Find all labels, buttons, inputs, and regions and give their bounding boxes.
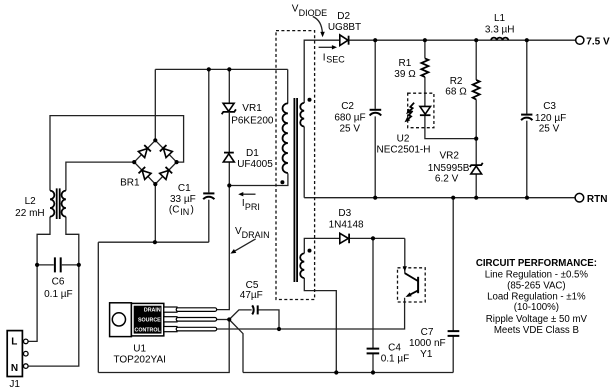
svg-text:C2: C2 — [341, 101, 354, 112]
wire left edge of primary return loop — [97, 242, 99, 372]
wire L2 right bottom to C6 right and J1 N pin — [28, 217, 79, 367]
svg-text:CONTROL: CONTROL — [135, 328, 162, 334]
transformer T1 primary winding — [283, 103, 288, 173]
wire R1 branch from rail — [424, 40, 426, 58]
connector J1 — [7, 331, 28, 377]
capacitor C6 — [55, 257, 61, 272]
svg-text:UF4005: UF4005 — [237, 159, 273, 170]
svg-text:0.1 µF: 0.1 µF — [44, 289, 73, 300]
TVS VR1 P6KE200 — [222, 103, 236, 114]
junction R1 at 7.5V rail — [423, 38, 427, 42]
wire drain node to primary bottom — [229, 173, 288, 185]
wire C3 branch upper — [526, 40, 528, 114]
wire AC line from L2 right winding to BR1 left vertex — [66, 162, 134, 191]
wire D2 cathode to 7.5V terminal — [349, 39, 576, 41]
capacitor C3 (polarized) — [521, 115, 532, 121]
svg-text:SEC: SEC — [326, 54, 345, 64]
svg-text:VR1: VR1 — [242, 103, 262, 114]
svg-text:Meets VDE Class B: Meets VDE Class B — [494, 325, 579, 336]
svg-text:1N5995B: 1N5995B — [428, 163, 470, 174]
transformer dashed box — [276, 31, 315, 300]
wire DC+ rail — [155, 68, 287, 70]
wire R2 bottom to node — [475, 100, 477, 139]
capacitor C7 — [448, 331, 460, 336]
wire C3 branch lower — [526, 121, 528, 198]
arrow VDIODE — [313, 17, 325, 38]
svg-text:NEC2501-H: NEC2501-H — [377, 144, 431, 155]
wire RTN rail — [304, 197, 575, 199]
svg-text:0.1 µF: 0.1 µF — [381, 354, 410, 365]
svg-text:39 Ω: 39 Ω — [394, 69, 416, 80]
transformer secondary polarity dot — [308, 98, 312, 102]
svg-text:Line Regulation - ±0.5%: Line Regulation - ±0.5% — [485, 270, 589, 281]
svg-text:(10-100%): (10-100%) — [514, 302, 559, 313]
junction LED/R2/VR2 node — [474, 137, 478, 141]
wire C6 left lead — [37, 264, 54, 266]
svg-text:SOURCE: SOURCE — [138, 318, 161, 324]
wire opto collector vertical — [404, 238, 406, 273]
circuit performance text block — [476, 258, 597, 336]
svg-text:7.5 V: 7.5 V — [586, 37, 610, 48]
optocoupler U2 LED — [420, 106, 431, 115]
capacitor C2 (polarized) — [370, 110, 382, 116]
arrow VDRAIN — [230, 239, 255, 254]
transformer primary polarity dot — [280, 180, 284, 184]
wire bottom rail left segment to SOURCE — [98, 320, 229, 373]
svg-text:DRAIN: DRAIN — [242, 230, 270, 240]
svg-text:3.3 µH: 3.3 µH — [485, 24, 515, 35]
svg-text:D3: D3 — [338, 208, 351, 219]
svg-text:RTN: RTN — [587, 194, 608, 205]
capacitor C4 — [367, 349, 380, 354]
capacitor C5 (polarized) — [252, 305, 258, 314]
wire between VR1 and D1 — [228, 113, 230, 152]
transformer T1 bias winding — [300, 253, 304, 278]
wire secondary bottom to RTN rail — [303, 127, 305, 198]
svg-text:TOP202YAI: TOP202YAI — [113, 354, 165, 365]
svg-text:I: I — [323, 52, 326, 63]
wire C1 branch upper — [208, 69, 210, 192]
svg-text:IN: IN — [180, 207, 189, 217]
wire source node diagonal to right return — [229, 320, 243, 373]
svg-text:Ripple Voltage ± 50 mV: Ripple Voltage ± 50 mV — [486, 314, 588, 325]
wire bias winding top to D3 — [304, 238, 340, 253]
svg-text:N: N — [11, 363, 18, 374]
svg-text:D1: D1 — [246, 148, 259, 159]
wire C7 branch upper — [452, 198, 454, 331]
diode D1 UF4005 — [223, 153, 234, 162]
wire VR2 anode to RTN rail — [475, 174, 477, 197]
bridge rectifier BR1 — [132, 138, 179, 186]
output terminal 7.5V — [576, 36, 584, 44]
wire U2 LED cathode to R2/VR2 node — [425, 115, 476, 138]
junction C1 at DC+ rail — [207, 67, 211, 71]
common-mode choke L2 — [50, 188, 66, 219]
inductor L1 — [491, 38, 508, 41]
junction C6 left — [35, 263, 39, 267]
junction C6 right — [77, 263, 81, 267]
svg-text:U2: U2 — [397, 134, 410, 145]
wire CONTROL lead to opto emitter — [217, 298, 405, 329]
svg-text:VR2: VR2 — [439, 151, 459, 162]
svg-text:(85-265 VAC): (85-265 VAC) — [507, 281, 566, 292]
zener VR2 1N5995B — [470, 163, 483, 174]
wire below D1 to drain node — [228, 162, 230, 185]
svg-text:DRAIN: DRAIN — [144, 307, 161, 313]
wire BR1 bottom to primary ground node — [154, 184, 156, 242]
resistor R2 — [473, 80, 480, 100]
wire bias winding bottom return — [304, 278, 336, 373]
junction C5 at control wire — [277, 327, 281, 331]
optocoupler U2 phototransistor dashed box — [398, 268, 426, 302]
IC U1 TOP202YAI package — [110, 303, 217, 337]
junction C7 at RTN rail — [451, 196, 455, 200]
wire D3 node down to C4 — [372, 238, 374, 348]
junction C2 at RTN rail — [373, 196, 377, 200]
svg-text:C1: C1 — [178, 183, 191, 194]
svg-text:6.2 V: 6.2 V — [435, 174, 459, 185]
svg-text:BR1: BR1 — [120, 177, 140, 188]
wire C5 right to CONTROL — [258, 310, 279, 329]
wire DC+ rail to primary top — [287, 69, 289, 103]
svg-text:25 V: 25 V — [539, 123, 560, 134]
svg-text:R2: R2 — [450, 76, 463, 87]
resistor R1 — [421, 58, 428, 77]
diode D2 UG8BT — [340, 35, 349, 46]
svg-text:L1: L1 — [494, 13, 506, 24]
wire C2 branch lower — [374, 116, 376, 197]
svg-text:C7: C7 — [421, 327, 434, 338]
svg-text:U1: U1 — [133, 344, 146, 355]
junction BR1 minus node — [153, 240, 157, 244]
wire C2 branch upper — [374, 40, 376, 109]
wire bottom rail right segment — [243, 372, 453, 374]
wire drain vertical to U1 DRAIN pin — [217, 186, 230, 310]
wire L2 left bottom to C6 left and J1 L pin — [28, 217, 50, 342]
svg-text:L2: L2 — [25, 196, 37, 207]
svg-text:DIODE: DIODE — [299, 8, 328, 18]
wire source node diagonal to C5 — [229, 310, 252, 320]
junction source node — [227, 317, 231, 321]
svg-text:22 mH: 22 mH — [15, 208, 44, 219]
wire C1 branch lower — [208, 200, 210, 243]
svg-text:33 µF: 33 µF — [170, 194, 196, 205]
optocoupler U2 LED dashed box — [408, 93, 434, 128]
svg-text:P6KE200: P6KE200 — [231, 115, 274, 126]
svg-text:C4: C4 — [388, 343, 401, 354]
wire C4 bottom to rail — [372, 354, 374, 373]
svg-text:C3: C3 — [543, 101, 556, 112]
svg-text:UG8BT: UG8BT — [328, 22, 361, 33]
svg-text:CIRCUIT PERFORMANCE:: CIRCUIT PERFORMANCE: — [476, 258, 597, 269]
transformer bias polarity dot — [308, 249, 312, 253]
junction C2 at 7.5V rail — [373, 38, 377, 42]
svg-text:L: L — [11, 337, 17, 348]
optocoupler U2 light arrows — [403, 103, 414, 124]
output terminal RTN — [575, 193, 584, 202]
wire AC line from L2 left winding to BR1 right vertex — [50, 116, 184, 191]
svg-text:(C: (C — [169, 205, 180, 216]
junction R2/L1 at 7.5V rail — [474, 38, 478, 42]
svg-text:): ) — [191, 205, 194, 216]
transformer T1 secondary winding — [300, 103, 304, 127]
svg-text:J1: J1 — [9, 379, 20, 390]
svg-text:R1: R1 — [399, 58, 412, 69]
arrow ISEC — [319, 45, 337, 49]
svg-text:D2: D2 — [337, 11, 350, 22]
svg-text:C6: C6 — [52, 277, 65, 288]
wire clamp branch above VR1 — [228, 69, 230, 103]
wire BR1 top to DC+ rail — [154, 69, 156, 140]
wire D3 cathode to opto collector corner — [349, 237, 405, 239]
junction D3 cathode node — [371, 236, 375, 240]
svg-text:PRI: PRI — [245, 202, 260, 212]
wire node to VR2 cathode — [475, 139, 477, 165]
junction VR1 at DC+ rail — [227, 67, 231, 71]
junction C3 at RTN rail — [525, 196, 529, 200]
wire R1 to U2 LED anode — [424, 77, 426, 107]
svg-text:47µF: 47µF — [240, 290, 263, 301]
diode D3 1N4148 — [340, 233, 349, 243]
transformer T1 core — [294, 98, 297, 282]
wire SOURCE lead to node — [217, 319, 230, 321]
wire C6 right lead — [62, 264, 79, 266]
arrow IPRI — [238, 192, 255, 196]
wire secondary top to D2 — [304, 40, 340, 103]
wire primary ground node horizontal — [98, 241, 209, 243]
svg-text:68 Ω: 68 Ω — [445, 86, 467, 97]
optocoupler U2 phototransistor — [403, 266, 418, 299]
svg-text:25 V: 25 V — [340, 123, 361, 134]
wire R2 branch from rail — [475, 40, 477, 80]
svg-text:Y1: Y1 — [420, 349, 433, 360]
svg-text:1000 nF: 1000 nF — [409, 338, 446, 349]
svg-text:1N4148: 1N4148 — [329, 220, 364, 231]
junction C3/L1 at 7.5V rail — [525, 38, 529, 42]
svg-text:120 µF: 120 µF — [535, 113, 566, 124]
svg-text:680 µF: 680 µF — [334, 112, 365, 123]
junction VR2 at RTN rail — [474, 196, 478, 200]
junction bias return at bottom rail — [334, 370, 338, 374]
junction C4 at bottom rail — [371, 370, 375, 374]
svg-text:Load Regulation - ±1%: Load Regulation - ±1% — [487, 292, 586, 303]
capacitor C1 (polarized) — [203, 193, 214, 199]
wire C7 branch lower — [452, 336, 454, 372]
junction drain node — [227, 183, 231, 187]
